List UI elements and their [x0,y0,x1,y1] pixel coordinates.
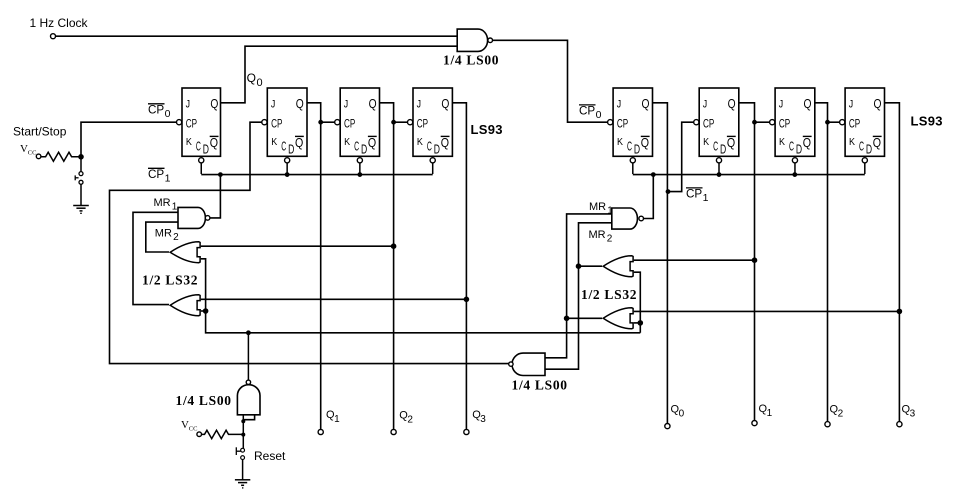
wire: CP1 right net (FF6 CP to Q0 vertical) [667,122,693,191]
net label: Q1 (left) [326,409,340,425]
wire: reset NAND output up to reset net [247,333,249,380]
wire: U6 output to CD line (right) [644,176,654,219]
net label: CP0 (left) [148,104,171,120]
junction: FF6 CD [717,172,722,177]
wire: U7A top input from Q1 (right) [634,259,755,261]
power label: Vcc (top) [20,143,36,157]
svg-text:1/4 LS00: 1/4 LS00 [512,378,568,393]
net label: Q0 (left) [247,71,263,89]
svg-text:0: 0 [596,109,602,121]
svg-text:V: V [181,419,189,431]
svg-text:Q: Q [642,97,650,111]
label: LS93 (right) [911,114,943,129]
svg-text:CP: CP [703,119,715,131]
wire: MR2 left (OR U4A out to U3) [146,222,178,252]
terminal: Q0 (right) [665,424,670,429]
svg-text:CP: CP [617,119,629,131]
wire: clock to U1A pin 1 [56,35,458,37]
junction: U7B lower input on reset net [638,320,644,326]
flip-flop FF2 (JK, 1/4 LS93) [262,88,307,174]
net label: 1 Hz Clock [30,16,89,30]
svg-text:Q: Q [803,136,812,150]
net label: CP1 (right) [686,188,709,204]
svg-text:3: 3 [480,414,486,425]
svg-text:K: K [849,136,855,148]
flip-flop FF6 (JK, 1/4 LS93) [694,88,739,174]
svg-text:1: 1 [607,206,613,217]
wire: U4B lower input stub [201,310,206,312]
resistor R1 (pullup) [41,152,79,161]
wire: FF8 Q to Q3 terminal (right) [885,103,900,422]
wire: FF6 Q to Q1 terminal (right) [739,103,755,421]
junction: U7A output on MR2 net [576,263,582,269]
wire: SW1 to ground [80,185,82,206]
or gate U7A (1/2 LS32 right, upper) [603,256,633,277]
or gate U4B (1/2 LS32 left, lower) [170,295,200,316]
svg-text:CP: CP [579,106,596,118]
wire: U7B lower input stub [634,322,641,324]
svg-text:C: C [196,140,201,154]
svg-text:MR: MR [154,197,171,209]
svg-text:CP: CP [779,119,791,131]
svg-text:V: V [20,143,28,155]
svg-text:C: C [281,140,286,154]
svg-text:1/4 LS00: 1/4 LS00 [443,53,499,68]
terminal: Q3 (right) [897,422,902,427]
svg-text:2: 2 [407,414,413,425]
junction: Q1 right to U7A input [752,257,758,263]
wire: Q2 to FF4 CP [394,121,408,123]
wire: U4A lower input to reset net [201,259,641,333]
wire: Q2 to FF8 CP (right) [828,121,840,123]
terminal: Q2 (left) [391,429,396,434]
junction: Q2 to FF8 CP (right) [825,120,830,125]
svg-text:Q: Q [874,97,882,111]
svg-text:Reset: Reset [254,449,286,463]
svg-text:Q: Q [441,97,449,111]
terminal: Q3 (left) [464,429,469,434]
label: 1/4 LS00 (U5B) [512,378,568,393]
svg-text:CC: CC [189,426,198,433]
svg-text:C: C [427,140,432,154]
svg-text:D: D [288,142,294,156]
svg-text:J: J [271,98,275,110]
wire: U4A top input from Q2 (left) [201,245,394,247]
junction: NAND U3 out to CD line [218,172,223,177]
wire: MR2 right net (OR U7A out / U5B input) [545,223,612,369]
svg-text:1/2 LS32: 1/2 LS32 [142,273,198,288]
junction: FF2 CD [285,172,290,177]
terminal: Q1 (right) [752,421,757,426]
svg-text:K: K [617,136,623,148]
net label: MR2 (left) [155,228,179,244]
wire: SW2 to ground [242,460,244,480]
wire: Q1 to FF3 CP [321,121,335,123]
net label: Q1 (right) [759,403,773,419]
junction: NAND U6 out to CD line (right) [651,172,656,177]
wire: U3 output to CD line [210,176,221,218]
svg-text:Q: Q [727,136,736,150]
flip-flop FF4 (JK, 1/4 LS93) [408,88,453,174]
svg-text:Q: Q [441,136,450,150]
switch SW1 (Start/Stop) [75,159,83,184]
svg-text:Q: Q [210,136,219,150]
svg-text:Q: Q [728,97,736,111]
flip-flop FF1 (JK, 1/4 LS93) [177,88,221,174]
or gate U4A (1/2 LS32 left, upper) [170,242,200,263]
svg-text:Q: Q [873,136,882,150]
svg-text:Start/Stop: Start/Stop [13,125,67,139]
label: 1/4 LS00 (U1A) [443,53,499,68]
wire: FF1 Q (Q0) to U1A pin 2 [221,46,458,103]
junction: U5A input tie [241,419,245,423]
junction: U4B lower input on reset net [203,308,209,314]
terminal: Vcc pullup (Start/Stop) [36,154,41,159]
flip-flop FF8 (JK, 1/4 LS93) [840,88,885,174]
junction: Q2 to U4A input [391,243,397,249]
svg-text:Q: Q [641,136,650,150]
svg-text:LS93: LS93 [471,122,503,137]
label: 1/2 LS32 (right) [581,287,637,302]
net label: Q0 (right) [671,404,685,420]
input terminal J1 (1 Hz clock) [51,34,56,39]
svg-text:K: K [271,136,277,148]
net label: Q2 (right) [830,404,844,420]
svg-text:0: 0 [679,408,685,419]
svg-text:CP: CP [148,169,165,181]
power label: Vcc (bottom) [181,419,197,433]
ground (Start/Stop) [73,206,89,214]
svg-text:D: D [434,142,440,156]
net label: Q3 (right) [902,404,916,420]
wire: CP1 left net (FF2 CP to U5 output) [110,122,509,363]
wire: FF4 Q to Q3 terminal (left) [452,103,466,430]
svg-text:3: 3 [910,408,916,419]
net label: MR1 (left) [154,197,178,213]
net label: MR1 (right) [589,201,613,217]
nand gate U5A (1/4 LS00 reset buffer) [237,380,260,415]
svg-text:D: D [203,142,209,156]
terminal: Q2 (right) [825,422,830,427]
svg-text:D: D [361,142,367,156]
junction: FF7 CD [792,172,797,177]
net label: CP0 (right) [579,105,602,121]
wire: FF5 Q to Q0 terminal (right) [653,103,668,424]
nand gate U6 (right MR gate) [612,208,644,229]
svg-text:C: C [789,140,794,154]
svg-text:CP: CP [686,189,703,201]
svg-text:K: K [417,136,423,148]
wire: FF3 Q to Q2 terminal (left) [380,103,394,430]
net label: Q2 (left) [399,410,413,426]
svg-text:K: K [779,136,785,148]
svg-text:LS93: LS93 [911,114,943,129]
net label: Q3 (left) [472,409,486,425]
net label: MR2 (right) [589,229,613,245]
wire: U5A inputs down to reset switch [242,415,244,448]
junction: Q1 to FF3 CP [318,120,323,125]
svg-text:K: K [344,136,350,148]
flip-flop FF5 (JK, 1/4 LS93) [608,88,653,174]
svg-text:1/4 LS00: 1/4 LS00 [176,393,232,408]
wire: Q1 to FF7 CP (right) [755,121,770,123]
svg-text:1/2 LS32: 1/2 LS32 [581,287,637,302]
junction: Q3 to U4B input [464,297,470,303]
svg-text:Q: Q [368,136,377,150]
svg-text:J: J [186,98,190,110]
svg-text:1: 1 [767,408,773,419]
wire: MR1 left (OR U4B out to U3) [133,212,178,304]
svg-text:C: C [859,140,864,154]
svg-text:1: 1 [334,414,340,425]
wire: CD line left LS93 [201,174,432,176]
wire: U7A lower input to reset net [634,272,641,333]
label: 1/4 LS00 (U5A) [176,393,232,408]
svg-text:CC: CC [28,150,37,157]
ground (Reset) [235,480,250,488]
junction: FF3 CD [357,172,362,177]
wire: CD line right LS93 [633,174,865,176]
svg-text:C: C [627,140,632,154]
svg-text:J: J [617,98,621,110]
svg-text:K: K [703,136,709,148]
svg-text:1 Hz Clock: 1 Hz Clock [30,16,89,30]
junction: Q2 to FF4 CP [391,120,396,125]
svg-text:D: D [796,142,802,156]
svg-text:2: 2 [173,232,179,243]
svg-text:J: J [417,98,421,110]
terminal: Q1 (left) [318,429,323,434]
svg-text:0: 0 [257,77,263,89]
junction: reset pullup node [241,433,245,437]
wire: U7B output stub [567,317,602,319]
svg-text:D: D [866,142,872,156]
node A (Start/Stop junction) [78,154,84,160]
net label: CP1 (left) [148,168,171,184]
svg-text:CP: CP [271,119,283,131]
svg-text:MR: MR [155,228,172,240]
flip-flop FF3 (JK, 1/4 LS93) [335,88,380,174]
junction: CP1 right tap on Q0 [666,189,671,194]
wire: FF7 Q to Q2 terminal (right) [815,103,828,422]
net label: Start/Stop [13,125,67,139]
svg-text:2: 2 [607,234,613,245]
svg-text:C: C [713,140,718,154]
nand gate U5B (1/4 LS00 middle) [509,353,545,375]
junction: Q3 right to U7B input [897,309,903,315]
svg-text:Q: Q [804,97,812,111]
svg-text:Q: Q [210,97,218,111]
switch SW2 (Reset) [236,447,244,459]
svg-text:J: J [344,98,348,110]
svg-text:C: C [354,140,359,154]
svg-text:D: D [720,142,726,156]
svg-text:MR: MR [589,229,606,241]
svg-text:CP: CP [186,119,198,131]
wire: U7A output stub [579,265,603,267]
svg-text:Q: Q [295,136,304,150]
junction: Q1 to FF7 CP (right) [752,120,757,125]
wire: U1A output to CP0 of right LS93 [493,40,608,122]
svg-text:J: J [703,98,707,110]
svg-text:2: 2 [838,408,844,419]
terminal: Vcc pullup (Reset) [197,432,202,437]
junction: reset net to left reset NAND [246,330,251,335]
flip-flop FF7 (JK, 1/4 LS93) [770,88,815,174]
wire: U4B top input from Q3 (left) [201,298,467,300]
svg-text:CP: CP [344,119,356,131]
nand gate U1A (1/4 LS00) [457,29,492,51]
svg-text:J: J [779,98,783,110]
svg-text:CP: CP [849,119,861,131]
nand gate U3 (left MR gate) [178,207,210,228]
or gate U7B (1/2 LS32 right, lower) [603,308,633,329]
label: LS93 (left) [471,122,503,137]
svg-text:Q: Q [369,97,377,111]
svg-text:Q: Q [296,97,304,111]
svg-text:1: 1 [172,202,178,213]
net label: Reset [254,449,286,463]
svg-text:K: K [186,136,192,148]
svg-text:1: 1 [165,173,171,185]
svg-text:D: D [634,142,640,156]
svg-text:Q: Q [247,71,256,85]
svg-text:MR: MR [589,201,606,213]
wire: U5A input tab [243,415,254,420]
svg-text:CP: CP [417,119,429,131]
svg-text:CP: CP [148,105,165,117]
svg-text:0: 0 [165,108,171,120]
wire: MR1 right net (OR U7B out / U5B input) [545,214,612,358]
label: 1/2 LS32 (left) [142,273,198,288]
svg-text:1: 1 [703,192,709,204]
junction: U7B output on MR1 net [564,316,570,322]
wire: U7B top input from Q3 (right) [634,310,900,312]
wire: Start/Stop node to FF1 CP (CP0 left) [81,122,177,157]
wire: FF2 Q to Q1 terminal (left) [307,103,321,430]
svg-text:J: J [849,98,853,110]
resistor R2 (reset pullup) [202,430,243,438]
